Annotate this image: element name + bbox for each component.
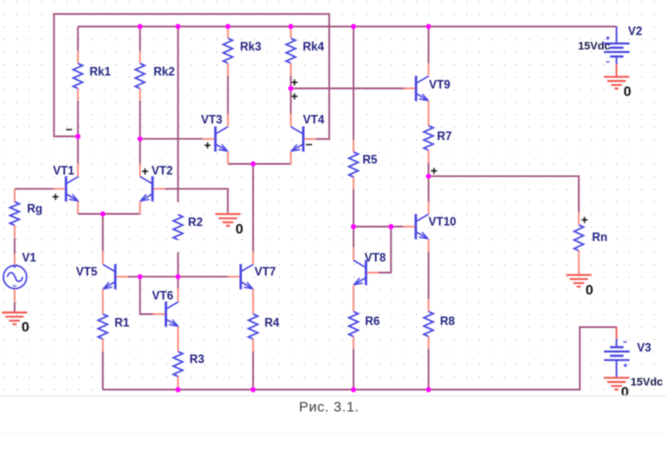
pin VT4 <box>291 114 316 164</box>
transistor VT7 <box>241 264 254 289</box>
transistor VT4 <box>291 126 304 151</box>
transistor VT6 <box>166 302 179 327</box>
pin R8 <box>428 299 430 349</box>
pin VT9 <box>404 63 429 125</box>
svg-text:0: 0 <box>621 384 629 400</box>
svg-text:15Vdc: 15Vdc <box>631 377 663 389</box>
wire Rg bottom to V1 <box>14 238 16 254</box>
ground at Rn <box>566 275 591 287</box>
svg-text:VT2: VT2 <box>152 165 173 178</box>
pin R3 <box>177 377 179 390</box>
resistor R8 <box>424 312 433 337</box>
node rail VT9 <box>426 24 431 29</box>
svg-text:VT6: VT6 <box>152 290 174 303</box>
pin Rk2 <box>139 51 141 101</box>
pin VT1 <box>54 164 78 214</box>
pin Rk3 <box>227 27 229 76</box>
node VT1 collector / feedback <box>75 134 80 139</box>
wire node to VT10 base <box>354 226 404 228</box>
wire Rk4 bottom to VT4 collector <box>290 76 292 114</box>
source V2 battery 15Vdc <box>604 27 630 65</box>
wire VT3/VT4 emitters <box>228 163 291 165</box>
resistor R6 <box>349 312 358 337</box>
wire output node to Rn <box>429 176 579 212</box>
transistor VT5 <box>103 264 116 289</box>
pin Rn <box>578 212 580 275</box>
svg-text:VT1: VT1 <box>53 165 75 178</box>
svg-text:Rg: Rg <box>27 203 42 216</box>
svg-text:R1: R1 <box>115 317 130 330</box>
wire tail to VT5 collector <box>102 214 104 252</box>
wire bottom rail to V3 <box>103 327 617 390</box>
wire VT10 emitter to R8 <box>428 252 430 299</box>
wire +V rail (top inner run to V2) <box>78 26 617 28</box>
svg-text:VT8: VT8 <box>365 252 387 265</box>
svg-text:+: + <box>291 76 298 90</box>
svg-text:VT10: VT10 <box>429 216 457 229</box>
wire VT5 base to bias node <box>128 276 140 278</box>
wire VT2 base to ground <box>165 189 228 214</box>
resistor R4 <box>248 314 257 339</box>
svg-text:R3: R3 <box>190 353 205 366</box>
svg-text:+: + <box>431 164 438 178</box>
wire R6 to bottom rail <box>353 349 355 390</box>
svg-text:Рис. 3.1.: Рис. 3.1. <box>299 399 359 415</box>
pin VT8 <box>354 248 379 312</box>
node R5 / VT8 collector <box>351 224 356 229</box>
wire emitter node to VT7 collector <box>252 164 254 252</box>
svg-text:0: 0 <box>624 83 632 99</box>
resistor Rk2 <box>135 63 144 88</box>
transistor VT8 <box>354 260 367 285</box>
node VT8 base riser <box>388 224 393 229</box>
wire R4 to bottom rail <box>252 352 254 390</box>
wire bias branch to VT6 base <box>140 277 153 314</box>
wire R5 bottom to VT8 collector <box>353 190 355 248</box>
resistor Rn <box>574 225 583 251</box>
svg-text:Rk3: Rk3 <box>240 41 262 54</box>
svg-text:15Vdc: 15Vdc <box>578 41 610 53</box>
svg-text:VT3: VT3 <box>201 114 223 127</box>
wire VT1/VT2 emitters <box>78 213 140 215</box>
transistor VT9 <box>416 76 429 101</box>
node bias VT6 collector <box>175 274 180 279</box>
svg-text:V1: V1 <box>22 252 37 265</box>
resistor R5 <box>349 152 358 177</box>
wire rail to R5 <box>353 27 355 140</box>
transistor VT10 <box>416 214 429 239</box>
source V3 battery 15Vdc <box>604 339 630 378</box>
svg-text:+: + <box>291 90 298 104</box>
wire Rk1 top <box>77 27 79 51</box>
resistor Rk3 <box>223 38 232 63</box>
node output <box>426 174 431 179</box>
resistor R1 <box>98 314 107 339</box>
svg-text:−: − <box>306 138 313 152</box>
wire bias net to VT7 base <box>140 276 228 278</box>
node bias VT5 base <box>137 274 142 279</box>
svg-text:V3: V3 <box>637 342 652 355</box>
svg-text:+: + <box>142 165 149 179</box>
wire node to VT9 base <box>291 87 404 89</box>
wire Rk1 bottom / VT1 collector <box>77 101 79 164</box>
resistor R7 <box>424 126 433 150</box>
wire R8 to bottom rail <box>428 349 430 390</box>
pin VT10 <box>403 202 428 252</box>
wire R1 to bottom rail <box>102 352 104 390</box>
svg-text:0: 0 <box>236 221 244 237</box>
pin Rk4 <box>290 27 292 76</box>
pin VT5 <box>103 251 128 314</box>
svg-text:Rk1: Rk1 <box>90 66 112 79</box>
svg-text:+: + <box>52 190 59 204</box>
node Rk2 / VT2 collector / VT3 base <box>137 136 142 141</box>
transistor VT1 <box>66 176 79 201</box>
svg-text:R8: R8 <box>440 315 455 328</box>
wire V1 to ground <box>14 302 16 313</box>
pin VT7 <box>228 251 253 314</box>
ground at V1 <box>2 313 27 325</box>
resistor R3 <box>173 352 182 377</box>
node rail Rk2 <box>137 24 142 29</box>
svg-text:V2: V2 <box>628 25 642 38</box>
pin V2 bottom <box>616 64 618 77</box>
node VT3/VT4 emitters <box>251 161 256 166</box>
wire VT8 base riser <box>379 227 392 273</box>
pin V3 top <box>616 327 618 339</box>
pin Rk1 <box>77 51 79 101</box>
node rail R8 <box>426 387 431 392</box>
pin Rg <box>14 189 16 238</box>
svg-text:Rk2: Rk2 <box>154 66 175 79</box>
wire Rk2 top <box>139 27 141 51</box>
wire rail to R2 <box>177 27 179 203</box>
transistor VT2 <box>140 176 153 201</box>
ground at V3 <box>604 378 629 390</box>
ground at VT2 base <box>215 214 240 226</box>
svg-text:VT9: VT9 <box>429 79 451 92</box>
node Rk4 / VT4 collector / VT9 base <box>288 86 293 91</box>
svg-text:R2: R2 <box>188 216 203 229</box>
svg-text:0: 0 <box>586 282 594 298</box>
svg-text:VT7: VT7 <box>255 266 276 279</box>
pin VT6 <box>153 289 178 352</box>
node rail R6 <box>351 387 356 392</box>
svg-text:R4: R4 <box>265 317 280 330</box>
pin VT2 <box>140 164 165 214</box>
svg-text:Rn: Rn <box>592 231 607 244</box>
transistor VT3 <box>215 126 228 151</box>
node rail R5 <box>351 24 356 29</box>
wire node to VT3 base <box>140 138 203 140</box>
svg-text:R7: R7 <box>437 130 452 143</box>
wire VT6 collector to bias node <box>177 277 179 289</box>
wire Rk3 bottom to VT3 collector <box>227 76 229 114</box>
pin R1 <box>102 339 104 352</box>
wire R2 bottom to bias node <box>177 252 179 277</box>
pin VT3 <box>203 114 228 164</box>
node rail R3 <box>175 387 180 392</box>
resistor R2 <box>173 215 182 240</box>
page separator line <box>0 395 666 397</box>
resistor Rk1 <box>73 63 82 88</box>
node rail Rk4 <box>288 24 293 29</box>
svg-text:+: + <box>581 213 588 227</box>
wire R7 bottom to output node <box>428 163 430 177</box>
pin R5 <box>353 140 355 190</box>
svg-text:−: − <box>66 123 73 137</box>
node rail R2 <box>175 24 180 29</box>
pin R7 <box>428 150 430 163</box>
svg-text:0: 0 <box>22 319 30 335</box>
wire VT10 collector to output node <box>428 176 430 201</box>
svg-text:Rk4: Rk4 <box>303 41 325 54</box>
source V1 sine <box>3 265 26 289</box>
ground at V2 <box>604 77 629 89</box>
node diff pair tail <box>100 211 105 216</box>
wire feedback net: VT1 collector to VT4 base (top outer run) <box>54 14 329 139</box>
svg-text:+: + <box>204 139 211 153</box>
wire rail to VT9 collector <box>428 27 430 64</box>
svg-text:R6: R6 <box>365 315 380 328</box>
node rail Rk3 <box>225 24 230 29</box>
wire Rg to VT1 base <box>15 188 54 190</box>
wire Rk2 bottom / VT2 collector <box>139 101 141 164</box>
pin R6 <box>353 337 355 350</box>
svg-text:VT5: VT5 <box>76 266 98 279</box>
svg-text:R5: R5 <box>363 154 378 167</box>
node rail R4 <box>251 387 256 392</box>
svg-text:VT4: VT4 <box>303 114 325 127</box>
pin R4 <box>252 339 254 352</box>
pin V1 <box>14 254 16 302</box>
resistor Rg <box>10 202 19 226</box>
resistor Rk4 <box>286 38 295 63</box>
